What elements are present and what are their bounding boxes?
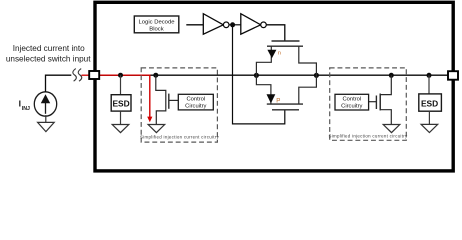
channel bar M2 (379, 94, 381, 111)
svg-text:Injected current into: Injected current into (13, 44, 85, 53)
svg-text:I: I (19, 98, 21, 108)
wire inverter1 node to pmos gate (233, 27, 285, 124)
svg-text:Circuitry: Circuitry (185, 104, 206, 110)
wire to inverter 2 (229, 24, 241, 26)
svg-text:Control: Control (186, 97, 205, 103)
control circuitry box left (178, 94, 213, 110)
inverter U1 (203, 14, 223, 35)
current source I_INJ (34, 92, 56, 116)
svg-text:Logic Decode: Logic Decode (138, 19, 175, 25)
left pin square (89, 71, 99, 79)
wire ESD right to ground (428, 111, 430, 124)
control circuitry box right (335, 94, 369, 110)
transistor M2 (right injection FET) (380, 75, 391, 124)
wire to ESD left (120, 75, 122, 95)
gate bar M2 (375, 96, 377, 110)
wire inverter 2 output to nmos gate (266, 25, 285, 41)
svg-text:Simplified injection current c: Simplified injection current circuitry (329, 134, 408, 139)
pmos bulk arrow (267, 94, 276, 103)
node dot right injection (389, 73, 394, 78)
squiggle break symbol (73, 69, 82, 82)
inverter U2 (241, 14, 261, 35)
node dot ESD right (427, 73, 432, 78)
svg-text:Circuitry: Circuitry (341, 104, 362, 110)
svg-text:unselected switch input: unselected switch input (6, 55, 91, 64)
ESD box right (419, 94, 442, 111)
svg-text:ESD: ESD (421, 98, 438, 108)
nmos bulk arrow (267, 50, 276, 58)
nmos gate bar (272, 40, 300, 42)
transmission gate right node (314, 73, 319, 78)
wire left node branches (256, 46, 271, 104)
wire logic decode to inverter 1 (186, 24, 203, 26)
nmos channel bar (267, 45, 303, 47)
ground (current source) (38, 115, 55, 132)
transmission gate left node (254, 73, 259, 78)
gate bar M1 (168, 94, 170, 109)
svg-text:INJ: INJ (22, 106, 30, 112)
ground (ESD right) (421, 124, 438, 132)
wire from current source to pin (46, 75, 72, 92)
wire right node branches (299, 46, 317, 104)
svg-text:Control: Control (342, 97, 361, 103)
gate lead M1 (169, 99, 179, 101)
node dot left injection (153, 73, 158, 78)
ground (ESD left) (112, 125, 129, 133)
dashed box left (simplified injection current circuitry) (141, 68, 217, 142)
svg-text:P: P (276, 98, 280, 105)
red rail overlay (injected current path) (100, 75, 150, 117)
ground (left injection) (148, 125, 165, 133)
svg-text:Block: Block (149, 27, 163, 33)
node dot ESD left (118, 73, 123, 78)
pmos gate bar (272, 109, 299, 111)
wire ESD to ground (120, 111, 122, 124)
svg-text:n: n (278, 51, 281, 57)
ESD box left (111, 95, 131, 111)
node dot between inverters (230, 22, 235, 27)
transistor M1 (left injection FET) drain/channel/source (156, 75, 166, 124)
main rail (black) (100, 74, 449, 76)
logic decode block (134, 16, 179, 33)
dashed box right (simplified injection current circuitry) (330, 68, 407, 140)
ground (right injection) (383, 125, 400, 133)
gate lead M2 (369, 101, 377, 103)
red segment before pin (82, 74, 89, 76)
right pin square (448, 71, 458, 80)
IC outline box (95, 2, 453, 171)
svg-text:Simplified injection current c: Simplified injection current circuitry (140, 134, 219, 139)
svg-text:ESD: ESD (112, 99, 129, 109)
pmos channel bar (267, 103, 303, 105)
red arrowhead (147, 117, 152, 123)
wire to ESD right (428, 75, 430, 94)
